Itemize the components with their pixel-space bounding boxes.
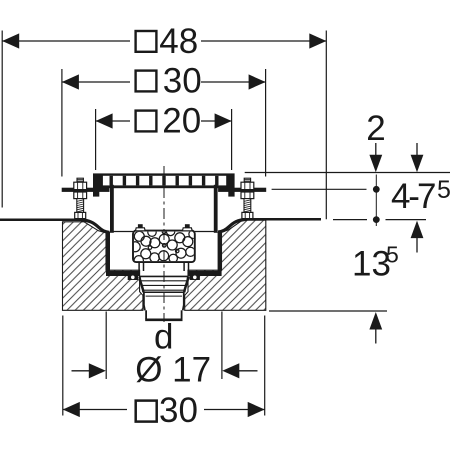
grate frame lip left — [93, 188, 99, 196]
arrow down at drain top left — [369, 143, 382, 172]
bowl bottom flange left — [106, 271, 140, 276]
floor line with waterproofing membrane left — [0, 220, 110, 233]
label 2 — [366, 109, 385, 148]
slab bottom line right — [269, 310, 387, 312]
screed level line segments — [333, 219, 426, 221]
label 13 superscript 5 — [352, 242, 399, 284]
frame wall right — [214, 185, 218, 233]
bowl rim line left — [114, 231, 134, 233]
drain body wall left — [106, 232, 110, 273]
concrete floor block right (hatched) — [185, 220, 266, 310]
center line between reference dots — [375, 175, 377, 227]
svg-text:7: 7 — [417, 177, 436, 216]
concrete floor block left (hatched) — [63, 222, 143, 310]
label 4-7 superscript 5 — [391, 176, 450, 216]
basket leg left — [139, 262, 143, 271]
frame wall left — [110, 185, 114, 233]
telescopic funnel — [139, 276, 188, 292]
flange level line — [272, 188, 367, 190]
label d outlet diameter — [154, 318, 173, 357]
dimension square-30 bottom — [63, 316, 265, 431]
svg-text:5: 5 — [437, 176, 450, 204]
outlet pipe d — [145, 310, 182, 320]
grate with slots — [93, 173, 235, 188]
bowl rim line right — [195, 231, 214, 233]
leveling screw left — [74, 178, 87, 218]
mounting flange plate left — [62, 188, 110, 192]
bowl bottom flange right — [188, 271, 222, 276]
svg-text:48: 48 — [159, 22, 198, 61]
svg-text:5: 5 — [386, 242, 399, 268]
arrow up to screed line — [411, 221, 424, 253]
grate frame lip right — [228, 188, 234, 196]
arrow up to slab bottom — [369, 312, 382, 344]
floor line with waterproofing membrane right — [218, 219, 321, 232]
outlet pipe socket — [143, 292, 184, 310]
dirt trap basket with perforations — [130, 227, 197, 265]
dimension diameter-17 — [72, 312, 258, 390]
basket leg right — [184, 262, 188, 271]
basket handle bolt right — [182, 224, 192, 231]
basket handle bolt left — [135, 224, 145, 231]
reference dot lower — [373, 216, 380, 223]
svg-text:20: 20 — [162, 102, 201, 141]
svg-text:d: d — [154, 318, 173, 357]
mounting flange plate right — [218, 188, 266, 192]
leveling screw right — [241, 178, 254, 218]
svg-text:2: 2 — [366, 109, 385, 148]
clamp bolt left — [128, 273, 138, 280]
svg-text:30: 30 — [159, 391, 198, 430]
dimension square-30 top — [62, 62, 266, 177]
clamp bolt right — [190, 273, 200, 280]
drain body wall right — [218, 232, 222, 273]
finished floor level line — [245, 172, 450, 174]
dimension square-20 top — [96, 102, 232, 170]
dimension square-48 top — [2, 22, 326, 219]
svg-text:30: 30 — [163, 62, 202, 101]
arrow down at drain top right — [411, 143, 424, 172]
reference dot upper — [373, 186, 380, 193]
vertical center line — [163, 166, 165, 322]
